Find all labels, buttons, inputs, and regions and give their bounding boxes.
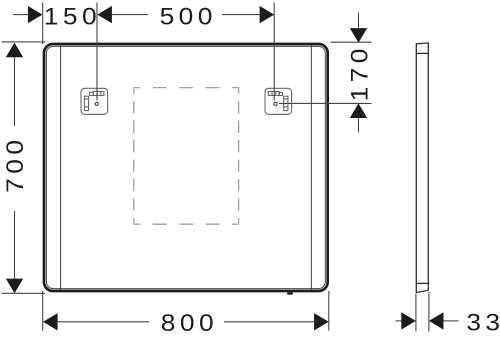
dimension 33 line right — [444, 320, 459, 322]
dimension 33 line left — [396, 320, 402, 322]
dashed cutout rectangle — [134, 88, 239, 225]
dimension 700 arrow up — [6, 43, 23, 58]
dimension 500 line left — [112, 14, 148, 16]
front view outer border — [44, 44, 328, 291]
dimension 500 line right — [222, 14, 260, 16]
dimension 500 arrow left — [97, 6, 112, 23]
front view right inner vertical line — [310, 45, 312, 289]
left mounting bracket — [81, 88, 108, 114]
svg-text:150: 150 — [44, 3, 101, 30]
dimension 150 arrow right — [28, 6, 43, 23]
bottom edge sensor tab — [287, 292, 292, 294]
dimension 800 line right — [224, 321, 314, 323]
dimension 33 arrow left — [429, 312, 444, 329]
side view top divider — [416, 52, 428, 54]
extension line right bracket center — [273, 3, 275, 101]
dimension 800 arrow right — [314, 313, 329, 330]
extension line right edge below mirror — [328, 291, 330, 331]
dimension 170 arrow down — [350, 28, 367, 43]
dimension 170 arrow up — [350, 103, 367, 118]
svg-text:170: 170 — [346, 44, 373, 101]
side view bottom divider — [416, 282, 428, 284]
dimension 150 leader line — [13, 14, 28, 16]
dimension 700 line lower — [14, 211, 16, 279]
dimension 800 line left — [58, 321, 149, 323]
dimension 700 arrow down — [6, 279, 23, 294]
extension line left bracket center — [96, 3, 98, 101]
dimension 170 line below — [358, 118, 360, 133]
extension line 170 top (from mirror top right) — [330, 41, 371, 43]
extension line mirror top left (700 top) — [2, 41, 46, 43]
dimension 700 line upper — [14, 57, 16, 126]
right mounting bracket — [265, 88, 292, 114]
dimension 170 line above — [358, 13, 360, 29]
svg-text:800: 800 — [161, 310, 218, 337]
front view left inner vertical line — [60, 45, 62, 289]
dimension 33 arrow right — [401, 312, 416, 329]
extension line side view right — [428, 292, 430, 332]
extension line side view left — [415, 294, 417, 332]
side view outline — [416, 43, 428, 293]
left bracket screw hole — [95, 102, 98, 105]
right bracket screw hole — [274, 102, 277, 105]
dimension 500 arrow right — [260, 6, 275, 23]
front view inner edge line — [46, 46, 325, 288]
dimension 800 arrow left — [43, 313, 58, 330]
extension line 170 bottom (from right bracket hole) — [279, 102, 372, 104]
svg-text:33: 33 — [466, 310, 500, 337]
svg-text:700: 700 — [2, 136, 29, 193]
svg-text:500: 500 — [160, 3, 217, 30]
extension line mirror bottom left (700 bottom) — [2, 292, 46, 294]
extension line left edge (top ticks + below mirror) — [42, 3, 44, 45]
